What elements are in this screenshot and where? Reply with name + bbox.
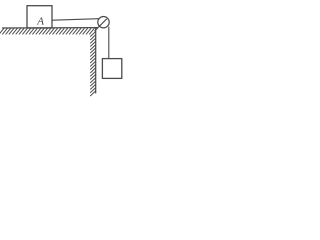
hanging block (102, 59, 121, 79)
pulley (98, 17, 109, 28)
string from block to pulley (53, 19, 100, 21)
table surface line (3, 27, 98, 29)
table surface hatching (0, 28, 94, 34)
table vertical edge hatching (91, 32, 96, 96)
svg-text:A: A (36, 16, 44, 28)
table vertical edge (95, 28, 97, 93)
pulley bracket strut (95, 19, 107, 31)
block A (27, 6, 52, 28)
vertical string from pulley to hanging block (108, 27, 110, 58)
